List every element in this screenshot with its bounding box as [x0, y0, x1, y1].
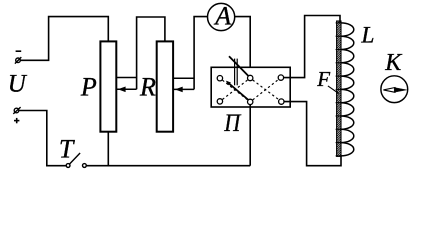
ammeter A — [208, 3, 235, 30]
commutator switch П box — [211, 67, 290, 107]
svg-text:F: F — [316, 67, 330, 91]
wire minus terminal to P top — [20, 17, 108, 61]
compass K — [381, 76, 408, 103]
contact top-left — [217, 76, 222, 81]
svg-text:K: K — [384, 50, 403, 76]
knife switch T — [66, 153, 86, 167]
potentiometer P body — [100, 41, 116, 131]
svg-text:L: L — [360, 23, 374, 49]
wiper rod of R — [173, 77, 194, 79]
dashed link TL-BM — [222, 80, 247, 100]
wiper rod of P — [116, 77, 136, 79]
solenoid F winding (10 turns) — [341, 23, 354, 156]
svg-text:T: T — [59, 135, 75, 164]
wire R wiper to ammeter — [194, 17, 207, 90]
blade upper — [229, 56, 248, 75]
compass needle — [383, 88, 406, 93]
dashed link BM-TR — [253, 80, 279, 100]
contact bottom-right — [279, 99, 284, 104]
wire BR contact to coil bottom — [284, 102, 341, 166]
svg-text:U: U — [8, 71, 28, 98]
dashed link TM-BR — [253, 80, 279, 100]
bottom rail wire switch T to П — [86, 165, 250, 167]
wire P bottom to rail — [107, 132, 109, 166]
terminal plus — [13, 107, 20, 114]
svg-text:R: R — [139, 73, 156, 102]
wiper arrow of P — [116, 87, 136, 93]
leader line from F to winding — [328, 86, 339, 94]
blade lower with arrow tip — [226, 81, 249, 100]
wire P wiper to R top — [137, 17, 165, 89]
wire TR contact to coil top — [284, 16, 340, 78]
contact bottom-middle — [248, 99, 253, 104]
contact top-middle — [248, 75, 253, 80]
wire BM contact to bottom rail — [249, 105, 251, 166]
iron core L (hatched bar) — [337, 21, 341, 156]
plus polarity label — [14, 118, 19, 123]
contact top-right — [278, 75, 283, 80]
svg-text:П: П — [223, 110, 242, 137]
contact bottom-left — [217, 99, 222, 104]
wire ammeter to switch П top-middle contact — [235, 17, 250, 76]
winding junction ticks across core — [336, 23, 342, 156]
rheostat R body — [157, 41, 173, 131]
svg-text:P: P — [80, 73, 97, 102]
wiper arrow of R — [173, 87, 194, 93]
mechanical link bar — [235, 59, 238, 86]
svg-text:A: A — [213, 2, 231, 31]
minus polarity label — [16, 50, 22, 52]
dashed link BL-TM — [222, 80, 247, 100]
wire plus terminal to switch T — [19, 111, 66, 166]
terminal minus — [15, 57, 21, 64]
